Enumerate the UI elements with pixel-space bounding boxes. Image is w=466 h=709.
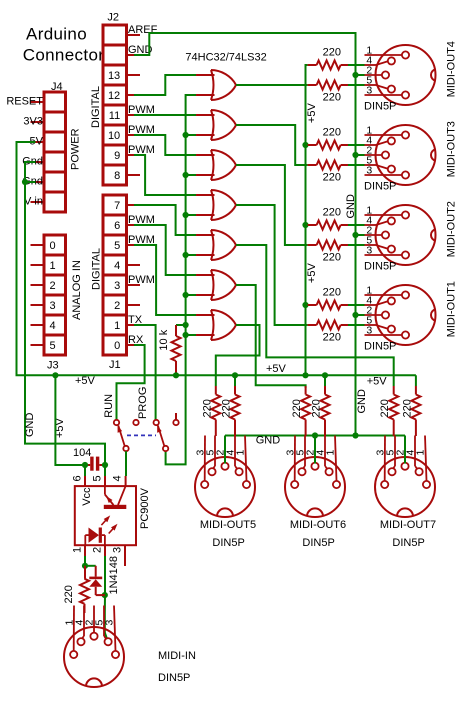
wire TX to PROG jumper <box>134 325 156 420</box>
svg-text:3: 3 <box>366 245 372 257</box>
svg-text:2: 2 <box>114 300 120 312</box>
svg-text:MIDI-OUT3: MIDI-OUT3 <box>446 121 458 177</box>
wire RX to RUN jumper <box>117 345 145 420</box>
wire pin9 to gate U1D in1 <box>134 155 196 195</box>
connector J1 pin name labels <box>128 214 155 346</box>
IC label 74HC32/74LS32 <box>185 52 266 64</box>
svg-text:Arduino: Arduino <box>26 25 87 44</box>
jumper mechanical link (blue dashed) <box>127 434 156 436</box>
DIN5P connector MIDI-OUT2 <box>364 201 458 273</box>
optocoupler U2 PC900V box <box>72 475 137 566</box>
svg-text:220: 220 <box>201 399 213 417</box>
svg-text:6: 6 <box>72 475 84 481</box>
svg-text:+5V: +5V <box>306 103 318 124</box>
resistors 220 pair for MIDI-OUT4 <box>308 47 365 104</box>
or-gate U1D <box>195 190 236 220</box>
svg-text:11: 11 <box>109 110 120 122</box>
wire gate U1F out to MIDI-OUT6 <box>236 285 306 388</box>
svg-text:V in: V in <box>24 196 43 208</box>
DIN5P connector MIDI-OUT3 <box>364 121 458 193</box>
title text Arduino Connector <box>23 25 105 65</box>
wire +5V main horizontal net <box>17 142 416 438</box>
connector J2 pin name labels <box>128 24 158 156</box>
svg-text:3: 3 <box>50 300 56 312</box>
wire opto pin5 to GND/cap <box>104 465 106 476</box>
svg-text:1: 1 <box>325 450 337 456</box>
resistors 220 pair for MIDI-OUT3 <box>308 127 365 184</box>
svg-text:DIN5P: DIN5P <box>364 101 396 113</box>
svg-text:MIDI-OUT5: MIDI-OUT5 <box>200 519 256 531</box>
wire pin5 to gate U1G in1 <box>134 245 196 315</box>
svg-text:12: 12 <box>108 90 120 102</box>
svg-text:1: 1 <box>415 450 427 456</box>
svg-text:4: 4 <box>50 320 56 332</box>
connector J1 box and pins <box>90 195 140 371</box>
svg-text:ANALOG IN: ANALOG IN <box>71 260 83 320</box>
svg-text:220: 220 <box>323 252 341 264</box>
wire pin12 to gate U1A in1 <box>134 75 196 95</box>
wire gate U1B out to MIDI-OUT3 <box>236 125 308 165</box>
svg-text:1: 1 <box>50 260 56 272</box>
svg-text:J4: J4 <box>51 81 63 93</box>
svg-text:3: 3 <box>366 325 372 337</box>
svg-text:104: 104 <box>73 447 91 459</box>
svg-text:220: 220 <box>311 399 323 417</box>
wire pin11 to gate U1B in1 <box>134 114 196 116</box>
svg-text:DIN5P: DIN5P <box>302 537 334 549</box>
wire pin7 to gate U1E in1 <box>134 205 196 235</box>
wire opto pin6 Vcc <box>84 465 86 476</box>
wire opto pin1 down <box>82 556 88 569</box>
svg-text:0: 0 <box>50 240 56 252</box>
svg-text:DIGITAL: DIGITAL <box>90 248 102 290</box>
svg-text:220: 220 <box>379 399 391 417</box>
phototransistor in U2 <box>104 486 127 509</box>
svg-text:8: 8 <box>114 170 120 182</box>
svg-text:13: 13 <box>108 70 120 82</box>
or-gate U1C <box>195 150 236 180</box>
svg-text:GND: GND <box>24 413 36 438</box>
DIN5P connector MIDI-OUT7 <box>375 436 437 550</box>
svg-text:PC900V: PC900V <box>139 487 151 529</box>
label PC900V <box>139 487 151 529</box>
svg-text:DIN5P: DIN5P <box>158 672 190 684</box>
svg-text:2: 2 <box>92 547 104 553</box>
DIN5P connector MIDI-OUT4 <box>364 41 458 113</box>
svg-text:Vcc: Vcc <box>81 487 93 506</box>
svg-text:5: 5 <box>50 340 56 352</box>
svg-text:PWM: PWM <box>128 274 155 286</box>
svg-text:MIDI-OUT2: MIDI-OUT2 <box>446 201 458 257</box>
svg-text:DIN5P: DIN5P <box>364 261 396 273</box>
svg-text:+5V: +5V <box>266 363 287 375</box>
svg-text:DIN5P: DIN5P <box>212 537 244 549</box>
svg-text:220: 220 <box>323 207 341 219</box>
wire bus common gate inputs with junctions <box>166 95 196 464</box>
or-gate U1A <box>195 70 236 100</box>
wire pin10 to gate U1C in1 <box>134 135 196 155</box>
svg-text:DIN5P: DIN5P <box>364 341 396 353</box>
LED in U2 <box>85 528 105 546</box>
connector J4 pin name labels <box>6 96 43 208</box>
svg-text:AREF: AREF <box>128 24 158 36</box>
svg-text:220: 220 <box>63 585 75 603</box>
resistor 10k pull-up <box>158 325 181 374</box>
svg-text:4: 4 <box>114 260 120 272</box>
svg-text:7: 7 <box>114 200 120 212</box>
DIN5P connector MIDI-IN <box>64 606 196 688</box>
svg-text:MIDI-OUT4: MIDI-OUT4 <box>446 41 458 97</box>
svg-text:Connector: Connector <box>23 46 105 65</box>
svg-text:10 k: 10 k <box>158 329 170 350</box>
svg-text:+5V: +5V <box>306 263 318 284</box>
svg-text:2: 2 <box>50 280 56 292</box>
svg-text:4: 4 <box>112 475 124 481</box>
svg-text:220: 220 <box>323 172 341 184</box>
wire opto pin2 down to DIN <box>102 556 108 639</box>
svg-text:POWER: POWER <box>70 128 82 170</box>
connector J4 box and pins <box>31 81 82 212</box>
svg-text:220: 220 <box>323 287 341 299</box>
svg-text:220: 220 <box>323 127 341 139</box>
or-gate U1E <box>195 230 236 260</box>
wire +5V branch to optocoupler Vcc <box>55 375 85 465</box>
or-gate U1B <box>195 110 236 140</box>
DIN5P connector MIDI-OUT1 <box>364 281 458 353</box>
svg-text:MIDI-OUT7: MIDI-OUT7 <box>380 519 436 531</box>
resistors 220 pair for MIDI-OUT2 <box>308 207 365 264</box>
svg-text:RESET: RESET <box>6 96 43 108</box>
svg-text:GND: GND <box>356 389 368 414</box>
svg-text:1: 1 <box>114 320 120 332</box>
svg-text:220: 220 <box>401 399 413 417</box>
DIN5P connector MIDI-OUT5 <box>195 436 257 550</box>
resistor 220 MIDI-IN <box>63 566 89 613</box>
or-gate U1F <box>195 270 236 300</box>
svg-text:J1: J1 <box>109 359 121 371</box>
svg-text:9: 9 <box>114 150 120 162</box>
svg-text:MIDI-IN: MIDI-IN <box>158 650 196 662</box>
wire gate U1E out to MIDI-OUT7 <box>236 245 394 386</box>
wire GND net with rail and junctions <box>134 33 405 447</box>
wire gate U1A out to MIDI-OUT4 <box>236 84 308 86</box>
svg-text:MIDI-OUT6: MIDI-OUT6 <box>290 519 346 531</box>
or-gate U1G <box>195 310 236 340</box>
svg-text:3: 3 <box>366 85 372 97</box>
svg-text:3: 3 <box>112 547 124 553</box>
connector J2 box and pins <box>90 12 140 185</box>
wire +5V vertical rail for MIDI-OUT1-4 <box>302 65 318 375</box>
svg-text:1: 1 <box>72 547 84 553</box>
resistors 220 for MIDI-OUT5/6/7 <box>201 375 420 436</box>
svg-text:DIN5P: DIN5P <box>364 181 396 193</box>
wire J4 Gnd branch <box>22 162 105 465</box>
jumper RUN/PROG posts and arrows <box>103 387 179 452</box>
svg-text:6: 6 <box>114 220 120 232</box>
svg-text:3: 3 <box>366 165 372 177</box>
svg-text:220: 220 <box>221 399 233 417</box>
svg-text:PROG: PROG <box>137 387 149 419</box>
svg-text:74HC32/74LS32: 74HC32/74LS32 <box>185 52 266 64</box>
svg-text:220: 220 <box>291 399 303 417</box>
svg-text:220: 220 <box>323 92 341 104</box>
svg-text:GND: GND <box>345 194 357 219</box>
wire gate U1G out to MIDI-OUT5 <box>216 325 260 386</box>
svg-text:3: 3 <box>114 280 120 292</box>
wire GND to bottom DIN pin2 <box>225 436 405 464</box>
diode D1 1N4148 <box>85 556 120 595</box>
svg-text:GND: GND <box>256 435 281 447</box>
svg-text:5: 5 <box>92 475 104 481</box>
svg-text:0: 0 <box>114 340 120 352</box>
svg-text:220: 220 <box>323 47 341 59</box>
wire RUN jumper to optocoupler pin4 <box>125 451 127 476</box>
svg-text:DIN5P: DIN5P <box>392 537 424 549</box>
svg-text:10: 10 <box>108 130 120 142</box>
svg-text:3: 3 <box>104 620 116 626</box>
svg-text:3V3: 3V3 <box>23 116 43 128</box>
svg-text:1: 1 <box>235 450 247 456</box>
svg-text:MIDI-OUT1: MIDI-OUT1 <box>446 281 458 337</box>
svg-text:RUN: RUN <box>103 394 115 418</box>
wire gate U1C out to MIDI-OUT2 <box>236 165 308 245</box>
svg-text:J3: J3 <box>47 360 59 372</box>
wire gate U1D out to MIDI-OUT1 <box>236 205 308 325</box>
DIN5P connector MIDI-OUT6 <box>285 436 347 550</box>
svg-text:J2: J2 <box>107 12 119 24</box>
svg-text:5: 5 <box>114 240 120 252</box>
resistors 220 pair for MIDI-OUT1 <box>308 287 365 344</box>
svg-text:1N4148: 1N4148 <box>108 556 120 595</box>
svg-text:DIGITAL: DIGITAL <box>90 86 102 128</box>
connector J3 box and pins <box>31 235 84 372</box>
capacitor C1 104 <box>73 447 108 471</box>
svg-text:+5V: +5V <box>75 375 96 387</box>
light arrows in U2 <box>101 515 117 533</box>
svg-text:220: 220 <box>323 332 341 344</box>
wire pin6 to gate U1F in1 <box>134 225 196 275</box>
svg-text:+5V: +5V <box>367 376 388 388</box>
